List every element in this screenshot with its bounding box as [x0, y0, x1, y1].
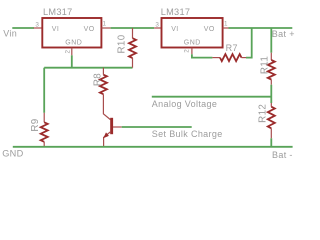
regulator IC2 LM317 body: [162, 18, 223, 48]
transistor Q1 collector from R8: [103, 94, 110, 119]
wire IC1 GND pin down to node A: [71, 55, 73, 68]
resistor R10: [129, 28, 136, 68]
svg-text:Bat -: Bat -: [272, 150, 293, 160]
svg-text:R9: R9: [30, 118, 41, 131]
resistor R8: [100, 68, 107, 95]
IC1 pin 2 stub (GND): [71, 48, 73, 56]
transistor Q1 emitter with arrow: [103, 132, 110, 147]
svg-text:LM317: LM317: [161, 7, 191, 17]
regulator IC1 LM317 body: [42, 18, 101, 48]
svg-text:2: 2: [65, 49, 72, 53]
svg-text:R10: R10: [117, 34, 128, 53]
svg-text:VO: VO: [84, 26, 95, 33]
IC2 pin 1 stub: [223, 27, 229, 29]
wire IC2 VO to Bat +: [229, 27, 293, 29]
wire node A down to R9: [43, 68, 45, 113]
svg-text:2: 2: [183, 49, 190, 53]
wire R12 to Bat - rail: [270, 138, 272, 147]
resistor R7: [212, 54, 246, 61]
transistor Q1 base stub: [113, 126, 122, 128]
svg-text:GND: GND: [184, 39, 201, 46]
IC2 pin 3 stub: [154, 27, 161, 29]
wire Vin to IC1 VI: [12, 27, 34, 29]
svg-text:GND: GND: [65, 39, 82, 46]
svg-text:GND: GND: [2, 149, 23, 159]
svg-text:R8: R8: [93, 73, 104, 86]
resistor R9: [41, 113, 48, 147]
svg-text:VI: VI: [171, 26, 179, 33]
svg-text:VI: VI: [52, 26, 60, 33]
IC1 pin 1 stub: [101, 27, 110, 29]
resistor R11: [268, 53, 275, 85]
svg-text:Bat +: Bat +: [272, 29, 295, 39]
svg-text:3: 3: [35, 21, 39, 28]
wire Bat + rail down to R11: [270, 28, 272, 53]
svg-text:1: 1: [224, 21, 228, 28]
wire node A horizontal (R9 top to R10 bottom): [44, 67, 132, 69]
svg-text:Set Bulk Charge: Set Bulk Charge: [152, 129, 223, 139]
transistor Q1 base bar: [110, 118, 113, 134]
resistor R12: [268, 103, 275, 138]
svg-text:R7: R7: [226, 43, 238, 53]
IC1 pin 3 stub: [34, 27, 43, 29]
svg-text:LM317: LM317: [43, 7, 73, 17]
svg-text:Analog Voltage: Analog Voltage: [152, 99, 217, 109]
svg-text:VO: VO: [204, 26, 215, 33]
IC2 pin 2 stub (GND): [191, 48, 193, 55]
svg-text:R11: R11: [259, 56, 270, 74]
wire R7 right up to output net: [246, 28, 252, 58]
ground rail wire: [13, 146, 293, 148]
wire IC2 GND pin to R7: [192, 54, 213, 57]
svg-text:R12: R12: [258, 104, 269, 123]
wire Analog Voltage net: [152, 96, 271, 98]
wire IC1 VO to IC2 VI: [111, 27, 155, 29]
wire R11 to Analog Voltage node: [270, 85, 272, 103]
svg-text:3: 3: [155, 21, 159, 28]
svg-text:Vin: Vin: [3, 28, 17, 38]
wire Set Bulk Charge net: [122, 126, 192, 128]
svg-text:1: 1: [103, 21, 107, 28]
